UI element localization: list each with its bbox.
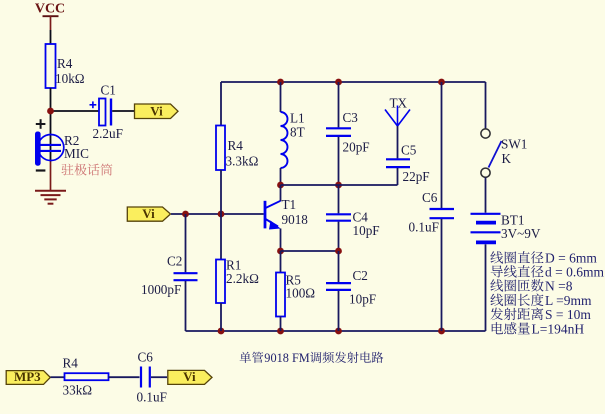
svg-text:L =9mm: L =9mm — [545, 293, 592, 308]
svg-text:C1: C1 — [101, 83, 116, 98]
svg-text:0.1uF: 0.1uF — [137, 390, 167, 405]
svg-text:C2: C2 — [167, 254, 182, 269]
svg-text:TX: TX — [390, 96, 408, 111]
svg-text:T1: T1 — [282, 197, 297, 212]
svg-text:0.1uF: 0.1uF — [409, 220, 439, 235]
svg-text:R4: R4 — [228, 138, 244, 153]
svg-text:MP3: MP3 — [14, 369, 41, 384]
svg-text:D = 6mm: D = 6mm — [545, 251, 597, 266]
svg-text:C5: C5 — [401, 143, 417, 158]
svg-text:3.3kΩ: 3.3kΩ — [226, 154, 259, 169]
svg-text:2.2uF: 2.2uF — [93, 126, 123, 141]
svg-text:K: K — [502, 151, 512, 166]
svg-text:9018: 9018 — [282, 212, 309, 227]
svg-text:VCC: VCC — [35, 2, 65, 17]
svg-text:C6: C6 — [138, 350, 154, 365]
svg-text:L=194nH: L=194nH — [532, 322, 585, 337]
svg-text:S = 10m: S = 10m — [545, 307, 591, 322]
svg-text:3V~9V: 3V~9V — [501, 226, 541, 241]
svg-text:20pF: 20pF — [343, 140, 370, 155]
svg-text:22pF: 22pF — [403, 169, 430, 184]
svg-text:R4: R4 — [63, 356, 79, 371]
svg-text:C6: C6 — [422, 190, 438, 205]
svg-text:d = 0.6mm: d = 0.6mm — [545, 265, 604, 280]
svg-text:MIC: MIC — [64, 146, 89, 161]
svg-text:10kΩ: 10kΩ — [55, 71, 85, 86]
svg-text:9018 FM: 9018 FM — [264, 351, 310, 365]
svg-text:Vi: Vi — [150, 103, 163, 118]
svg-text:8T: 8T — [290, 125, 305, 140]
svg-text:Vi: Vi — [183, 369, 196, 384]
svg-text:10pF: 10pF — [353, 223, 380, 238]
svg-text:10pF: 10pF — [349, 292, 376, 307]
svg-text:33kΩ: 33kΩ — [63, 383, 93, 398]
svg-text:R4: R4 — [57, 56, 73, 71]
svg-text:C2: C2 — [353, 268, 368, 283]
svg-text:L1: L1 — [290, 111, 305, 126]
svg-text:Vi: Vi — [142, 206, 155, 221]
svg-text:N =8: N =8 — [545, 279, 573, 294]
svg-text:2.2kΩ: 2.2kΩ — [226, 271, 259, 286]
svg-text:100Ω: 100Ω — [286, 286, 316, 301]
svg-text:1000pF: 1000pF — [141, 282, 181, 297]
svg-text:C3: C3 — [343, 110, 359, 125]
svg-text:SW1: SW1 — [501, 137, 527, 152]
